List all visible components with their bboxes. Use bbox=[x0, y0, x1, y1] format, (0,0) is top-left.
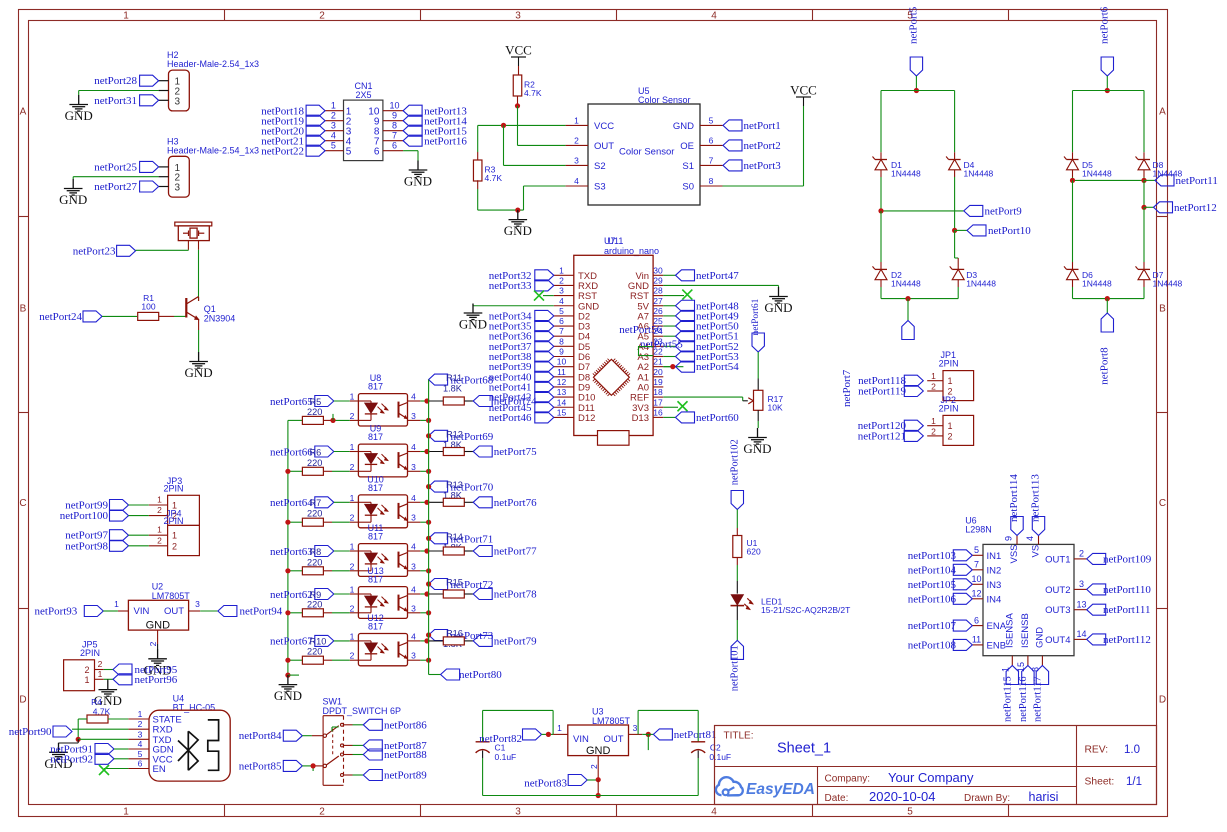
svg-text:Sheet:: Sheet: bbox=[1085, 777, 1115, 788]
svg-text:5: 5 bbox=[331, 140, 336, 150]
netPort14 bbox=[403, 115, 467, 127]
netPort5 bbox=[907, 6, 922, 76]
svg-text:netPort86: netPort86 bbox=[384, 719, 427, 731]
netPort21 bbox=[261, 135, 325, 147]
netPort100 bbox=[60, 510, 149, 522]
node netPort12 junction bbox=[1141, 205, 1146, 210]
svg-text:netPort10: netPort10 bbox=[988, 225, 1031, 237]
netPort36 bbox=[489, 331, 554, 343]
netPort89 bbox=[344, 770, 428, 782]
node bridge1 bottom junction bbox=[905, 296, 910, 301]
svg-text:10: 10 bbox=[557, 357, 567, 367]
svg-text:1N4448: 1N4448 bbox=[1153, 278, 1183, 288]
svg-text:Color Sensor: Color Sensor bbox=[619, 147, 674, 158]
netPort66 bbox=[270, 446, 334, 458]
svg-text:100: 100 bbox=[141, 302, 155, 312]
connector JP2 2PIN bbox=[927, 395, 973, 445]
wire U1 to LED1 bbox=[736, 558, 738, 594]
svg-text:netPort84: netPort84 bbox=[239, 730, 282, 742]
buzzer LS1 bbox=[175, 222, 212, 250]
svg-text:IN3: IN3 bbox=[987, 580, 1002, 591]
transistor Q1 2N3904 bbox=[186, 297, 235, 331]
diode D1 1N4448 bbox=[873, 152, 922, 178]
svg-text:netPort105: netPort105 bbox=[908, 579, 957, 591]
netPort52 bbox=[663, 341, 738, 353]
wire bridge2 mid rail bbox=[1073, 177, 1145, 180]
no-connect X RST left bbox=[534, 291, 554, 301]
netPort60 bbox=[663, 412, 739, 424]
svg-text:netPort16: netPort16 bbox=[424, 135, 467, 147]
netPort94 bbox=[200, 606, 283, 618]
LED LED1 15-21/S2C-AQ2R2B/2T bbox=[731, 595, 851, 615]
netPort3 bbox=[723, 160, 781, 172]
svg-text:Company:: Company: bbox=[825, 774, 871, 785]
svg-text:Drawn By:: Drawn By: bbox=[964, 793, 1010, 804]
netPort50 bbox=[663, 321, 739, 333]
wire netPort65 to pin1 bbox=[334, 400, 359, 402]
svg-text:3: 3 bbox=[1079, 579, 1084, 589]
power VCC right of U5 bbox=[790, 83, 817, 107]
svg-text:DPDT_SWITCH 6P: DPDT_SWITCH 6P bbox=[323, 706, 402, 716]
svg-text:R14: R14 bbox=[446, 532, 463, 542]
svg-text:1/1: 1/1 bbox=[1126, 776, 1142, 788]
wire C2 loop bbox=[638, 710, 698, 741]
svg-text:2: 2 bbox=[172, 541, 177, 551]
connector H2 bbox=[159, 50, 259, 111]
node netPort10 junction bbox=[952, 228, 957, 233]
wire netPort61 to R17 bbox=[757, 352, 759, 390]
netPort103 bbox=[908, 550, 973, 562]
svg-text:Header-Male-2.54_1x3: Header-Male-2.54_1x3 bbox=[167, 145, 259, 155]
svg-text:6: 6 bbox=[559, 316, 564, 326]
svg-text:R13: R13 bbox=[446, 480, 463, 490]
resistor R12 1.8K bbox=[408, 429, 474, 455]
svg-text:1: 1 bbox=[84, 675, 89, 685]
netPort120 bbox=[858, 420, 924, 432]
svg-text:2: 2 bbox=[931, 426, 936, 436]
ground GND arduino left bbox=[459, 304, 487, 332]
netPort99 bbox=[65, 500, 149, 512]
svg-text:netPort31: netPort31 bbox=[94, 95, 137, 107]
svg-text:30: 30 bbox=[653, 265, 663, 275]
svg-text:2: 2 bbox=[350, 513, 355, 523]
svg-text:netPort3: netPort3 bbox=[744, 160, 782, 172]
ground GND H2 bbox=[65, 95, 93, 123]
svg-text:netPort66: netPort66 bbox=[270, 446, 313, 458]
netPort48 bbox=[663, 300, 739, 312]
svg-text:harisi: harisi bbox=[1029, 790, 1059, 804]
wire pin3 row 4 bbox=[408, 570, 429, 572]
netPort75 bbox=[473, 446, 537, 458]
svg-text:netPort109: netPort109 bbox=[1103, 553, 1152, 565]
svg-text:4: 4 bbox=[411, 585, 416, 595]
svg-text:3: 3 bbox=[515, 11, 521, 22]
svg-text:R9: R9 bbox=[310, 590, 322, 600]
netPort15 bbox=[403, 125, 467, 137]
resistor R 220 row 4 bbox=[288, 547, 359, 575]
netPort16 bbox=[403, 135, 467, 147]
optocoupler U10 817 bbox=[350, 474, 417, 528]
svg-text:B: B bbox=[20, 304, 27, 315]
netPort37 bbox=[489, 341, 554, 353]
netPort49 bbox=[663, 310, 739, 322]
resistor R 220 row 5 bbox=[288, 590, 359, 617]
svg-text:2: 2 bbox=[319, 807, 325, 818]
netPort41 bbox=[489, 381, 554, 393]
wire junction to S2 bbox=[504, 125, 566, 165]
svg-text:16: 16 bbox=[653, 407, 663, 417]
svg-text:Your Company: Your Company bbox=[888, 770, 974, 785]
svg-text:netPort8: netPort8 bbox=[1098, 347, 1110, 385]
netPort108 bbox=[908, 639, 973, 651]
wire netPort24 to R1 bbox=[102, 315, 137, 317]
diode D3 1N4448 bbox=[950, 266, 997, 298]
netPort20 bbox=[261, 125, 325, 137]
svg-text:4: 4 bbox=[411, 392, 416, 402]
no-connect X RST right bbox=[663, 290, 692, 300]
wire R2 to OUT pin bbox=[518, 106, 566, 146]
ground GND R17 bbox=[743, 428, 771, 456]
svg-text:VS: VS bbox=[1031, 545, 1042, 558]
svg-text:3: 3 bbox=[175, 96, 181, 107]
diode D2 1N4448 bbox=[873, 211, 922, 299]
svg-text:11: 11 bbox=[972, 635, 981, 645]
svg-text:5: 5 bbox=[559, 306, 564, 316]
svg-text:netPort25: netPort25 bbox=[94, 161, 137, 173]
svg-text:netPort103: netPort103 bbox=[908, 550, 957, 562]
svg-text:3: 3 bbox=[411, 411, 416, 421]
svg-text:0.1uF: 0.1uF bbox=[495, 752, 517, 762]
svg-text:6: 6 bbox=[709, 135, 714, 145]
resistor R13 1.8K bbox=[408, 480, 474, 506]
netPort88 bbox=[344, 749, 428, 761]
svg-text:D: D bbox=[19, 695, 26, 706]
netPort69 bbox=[426, 430, 494, 443]
ground GND U2 bbox=[144, 649, 172, 677]
svg-text:14: 14 bbox=[557, 397, 567, 407]
netPort90 bbox=[9, 726, 129, 738]
svg-text:13: 13 bbox=[1076, 599, 1086, 609]
netPort25 bbox=[94, 161, 158, 173]
svg-text:ISENSA: ISENSA bbox=[1004, 612, 1015, 648]
wire netPort63 to pin1 bbox=[334, 550, 359, 552]
svg-text:1.0: 1.0 bbox=[1124, 744, 1140, 756]
svg-text:GND: GND bbox=[504, 223, 532, 238]
svg-text:12: 12 bbox=[557, 377, 567, 387]
svg-text:GND: GND bbox=[65, 108, 93, 123]
svg-text:7: 7 bbox=[709, 155, 714, 165]
svg-text:netPort22: netPort22 bbox=[261, 145, 304, 157]
wire VCC to R2 bbox=[518, 66, 520, 75]
svg-text:10: 10 bbox=[389, 100, 399, 110]
svg-text:5: 5 bbox=[346, 146, 352, 157]
svg-text:20: 20 bbox=[653, 367, 663, 377]
svg-text:2: 2 bbox=[559, 275, 564, 285]
wire netPort6 down bbox=[1106, 76, 1108, 91]
netPort121 bbox=[858, 430, 924, 442]
node pin3 junction row 6 bbox=[426, 658, 431, 663]
resistor R 220 row 6 bbox=[288, 637, 359, 665]
wire buzzer to Q1 collector bbox=[198, 250, 200, 301]
wire netPort67 to pin1 bbox=[334, 640, 359, 642]
wire bridge1 mid rail bbox=[881, 177, 964, 211]
wire netPort12 branch bbox=[1143, 180, 1145, 207]
netPort33 bbox=[489, 280, 554, 292]
resistor R16 1.8K bbox=[408, 629, 474, 650]
svg-text:3: 3 bbox=[331, 120, 336, 130]
node pin4 junction row 5 bbox=[424, 591, 429, 596]
svg-text:OUT: OUT bbox=[603, 734, 623, 745]
svg-text:1: 1 bbox=[931, 371, 936, 381]
svg-text:OUT2: OUT2 bbox=[1045, 585, 1070, 596]
diode D4 1N4448 bbox=[946, 152, 993, 178]
svg-text:6: 6 bbox=[138, 759, 143, 769]
svg-text:28: 28 bbox=[653, 286, 663, 296]
svg-text:220: 220 bbox=[307, 599, 322, 609]
svg-text:4: 4 bbox=[331, 130, 336, 140]
wire arduino GND4 left bbox=[473, 304, 554, 306]
svg-text:netPort112: netPort112 bbox=[1103, 634, 1151, 646]
svg-text:620: 620 bbox=[747, 547, 761, 557]
svg-text:D12: D12 bbox=[578, 413, 595, 424]
IC U2 LM7805T bbox=[114, 582, 200, 647]
svg-text:4: 4 bbox=[411, 442, 416, 452]
svg-text:netPort106: netPort106 bbox=[908, 593, 957, 605]
netPort95 bbox=[104, 664, 178, 676]
netPort19 bbox=[261, 115, 325, 127]
resistor R 220 row 2 bbox=[288, 447, 359, 475]
netPort35 bbox=[489, 321, 554, 333]
netPort38 bbox=[489, 351, 554, 363]
svg-text:6: 6 bbox=[392, 140, 397, 150]
netPort98 bbox=[65, 540, 149, 552]
wire S0 to VCC right bbox=[723, 106, 804, 186]
svg-text:VIN: VIN bbox=[573, 734, 589, 745]
svg-text:A: A bbox=[20, 107, 27, 118]
wire C1 loop bbox=[483, 710, 553, 741]
svg-text:7: 7 bbox=[392, 130, 397, 140]
svg-text:21: 21 bbox=[653, 357, 663, 367]
IC U3 LM7805T bbox=[553, 707, 642, 780]
svg-text:1N4448: 1N4448 bbox=[966, 278, 996, 288]
wire pin3 row 3 bbox=[408, 521, 429, 523]
svg-text:4: 4 bbox=[559, 296, 564, 306]
svg-text:817: 817 bbox=[368, 483, 383, 493]
svg-text:VSS: VSS bbox=[1009, 544, 1020, 563]
frame row letters bbox=[19, 107, 1166, 706]
svg-text:4: 4 bbox=[411, 493, 416, 503]
svg-text:4: 4 bbox=[574, 176, 579, 186]
svg-text:220: 220 bbox=[307, 509, 322, 519]
svg-text:netPort113: netPort113 bbox=[1030, 474, 1042, 522]
svg-text:LM7805T: LM7805T bbox=[152, 591, 191, 601]
netPort107 bbox=[908, 620, 973, 632]
ground GND U5 bbox=[504, 210, 532, 238]
netPort61 bbox=[751, 298, 764, 352]
wire bottom rail bbox=[483, 795, 699, 797]
netPort28 bbox=[94, 75, 158, 87]
netPort70 bbox=[426, 481, 494, 494]
svg-text:netPort74: netPort74 bbox=[494, 396, 537, 408]
netPort34 bbox=[489, 310, 554, 322]
wire H2 pin2 to ground bbox=[79, 91, 159, 96]
node pin3 junction row 4 bbox=[426, 568, 431, 573]
svg-text:27: 27 bbox=[653, 296, 663, 306]
node pin4 junction row 4 bbox=[424, 548, 429, 553]
title block bbox=[715, 726, 1157, 805]
svg-text:LM7805T: LM7805T bbox=[592, 716, 631, 726]
resistor R1 100 bbox=[138, 293, 187, 320]
svg-text:2: 2 bbox=[350, 651, 355, 661]
netPort18 bbox=[261, 105, 325, 117]
svg-text:1: 1 bbox=[123, 807, 129, 818]
svg-text:netPort93: netPort93 bbox=[35, 606, 78, 618]
svg-text:netPort116: netPort116 bbox=[1018, 676, 1029, 722]
svg-text:2PIN: 2PIN bbox=[164, 516, 184, 526]
svg-text:netPort63: netPort63 bbox=[270, 546, 313, 558]
wire Q1 emitter to ground bbox=[198, 330, 200, 352]
svg-text:7: 7 bbox=[559, 326, 564, 336]
ground GND opto rail bbox=[274, 675, 302, 703]
svg-text:GND: GND bbox=[673, 121, 694, 132]
svg-text:1: 1 bbox=[350, 631, 355, 641]
node bridge2 mid junction right bbox=[1141, 178, 1146, 183]
wire D3 jog bbox=[955, 230, 959, 269]
netPort47 bbox=[663, 270, 739, 282]
netPort73 bbox=[426, 630, 494, 643]
svg-text:R15: R15 bbox=[446, 578, 463, 588]
svg-text:4: 4 bbox=[1025, 536, 1035, 541]
wire LED1 to netPort101 bbox=[736, 606, 738, 641]
svg-text:3: 3 bbox=[411, 561, 416, 571]
svg-text:220: 220 bbox=[307, 458, 322, 468]
netPort53 bbox=[663, 351, 739, 363]
netPort24 bbox=[39, 311, 102, 323]
svg-text:netPort119: netPort119 bbox=[858, 386, 906, 398]
svg-text:netPort64: netPort64 bbox=[270, 497, 313, 509]
netPort117 bbox=[1032, 666, 1048, 723]
netPort63 bbox=[270, 546, 334, 558]
node VIN junction bbox=[546, 732, 551, 737]
svg-text:TITLE:: TITLE: bbox=[724, 731, 754, 742]
svg-text:1: 1 bbox=[350, 493, 355, 503]
svg-text:netPort28: netPort28 bbox=[94, 75, 137, 87]
connector JP3 2PIN bbox=[149, 476, 200, 525]
svg-text:netPort94: netPort94 bbox=[240, 606, 283, 618]
svg-text:1: 1 bbox=[948, 421, 953, 431]
svg-text:1: 1 bbox=[331, 100, 336, 110]
svg-text:netPort101: netPort101 bbox=[729, 645, 740, 691]
svg-text:netPort46: netPort46 bbox=[489, 412, 532, 424]
svg-text:220: 220 bbox=[307, 647, 322, 657]
svg-text:Date:: Date: bbox=[825, 793, 849, 804]
svg-text:S1: S1 bbox=[682, 161, 694, 172]
svg-text:4.7K: 4.7K bbox=[485, 173, 503, 183]
EasyEDA logo bbox=[716, 777, 815, 798]
svg-text:U11: U11 bbox=[608, 236, 624, 246]
resistor R3 4.7K bbox=[473, 160, 502, 183]
netPort113 bbox=[1030, 474, 1045, 536]
svg-text:Sheet_1: Sheet_1 bbox=[777, 741, 831, 757]
optocoupler U11 817 bbox=[350, 523, 417, 576]
netPort119 bbox=[858, 386, 923, 398]
svg-text:2: 2 bbox=[157, 505, 162, 515]
svg-text:VCC: VCC bbox=[505, 43, 532, 58]
netPort77 bbox=[473, 546, 537, 558]
svg-text:1: 1 bbox=[157, 495, 162, 505]
ground GND arduino right bbox=[764, 287, 792, 315]
svg-text:3: 3 bbox=[559, 286, 564, 296]
svg-text:2PIN: 2PIN bbox=[80, 648, 100, 658]
svg-text:netPort114: netPort114 bbox=[1008, 474, 1020, 522]
node rail junction row 3 bbox=[285, 520, 290, 525]
svg-text:817: 817 bbox=[368, 621, 383, 631]
svg-text:S3: S3 bbox=[594, 182, 606, 193]
svg-text:netPort83: netPort83 bbox=[524, 778, 567, 790]
node pin3 junction row 3 bbox=[426, 520, 431, 525]
svg-text:4: 4 bbox=[711, 807, 717, 818]
IC U4 BT_HC-05 bbox=[128, 694, 230, 782]
svg-text:OUT4: OUT4 bbox=[1045, 635, 1070, 646]
node OUT junction bbox=[642, 732, 653, 750]
node pin4 junction row 6 bbox=[424, 638, 429, 643]
svg-text:GND: GND bbox=[274, 688, 302, 703]
netPort80 bbox=[429, 669, 503, 681]
svg-text:2020-10-04: 2020-10-04 bbox=[869, 789, 936, 804]
svg-text:netPort98: netPort98 bbox=[65, 540, 108, 552]
netPort51 bbox=[663, 331, 738, 343]
wire CN1 pin6 to ground bbox=[403, 151, 418, 161]
svg-text:B: B bbox=[1159, 304, 1166, 315]
node bottom rail junction bbox=[596, 793, 601, 798]
netPort82 bbox=[479, 729, 553, 745]
wire VCC net to R3 bbox=[477, 125, 479, 160]
netPort12 bbox=[1144, 202, 1217, 214]
potentiometer R17 10K bbox=[754, 390, 784, 412]
svg-text:817: 817 bbox=[368, 382, 383, 392]
svg-text:1: 1 bbox=[350, 542, 355, 552]
node pin4 junction row 2 bbox=[424, 449, 429, 454]
switch SW1 DPDT_SWITCH 6P bbox=[323, 697, 402, 786]
node VCC-S2 junction bbox=[501, 123, 506, 128]
netPort45 bbox=[489, 402, 554, 414]
svg-text:3: 3 bbox=[411, 513, 416, 523]
netPort7 label bbox=[841, 369, 853, 407]
netPort78 bbox=[473, 589, 537, 601]
netPort93 bbox=[35, 606, 118, 618]
svg-text:1.8K: 1.8K bbox=[443, 384, 463, 394]
svg-text:netPort60: netPort60 bbox=[696, 412, 739, 424]
netPort56 overlay label bbox=[619, 324, 662, 336]
svg-text:1: 1 bbox=[114, 599, 119, 609]
optocoupler U13 817 bbox=[350, 566, 417, 618]
svg-text:netPort61: netPort61 bbox=[751, 298, 761, 335]
svg-text:2PIN: 2PIN bbox=[939, 359, 959, 369]
svg-text:2: 2 bbox=[350, 462, 355, 472]
svg-text:6: 6 bbox=[974, 615, 979, 625]
wire netPort5 down bbox=[915, 76, 917, 91]
svg-text:3: 3 bbox=[138, 729, 143, 739]
wire S3 down bbox=[524, 186, 566, 210]
resistor R 220 row 3 bbox=[288, 498, 359, 526]
svg-text:4: 4 bbox=[711, 11, 717, 22]
node rail junction row 5 bbox=[285, 610, 290, 615]
svg-text:netPort54: netPort54 bbox=[696, 361, 739, 373]
svg-text:3: 3 bbox=[411, 462, 416, 472]
svg-text:A: A bbox=[1159, 107, 1166, 118]
svg-text:3: 3 bbox=[574, 155, 579, 165]
svg-text:1: 1 bbox=[138, 709, 143, 719]
